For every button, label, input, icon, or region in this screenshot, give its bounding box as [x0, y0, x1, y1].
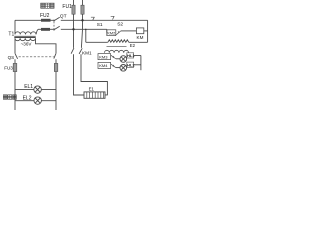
wire loop right vertical — [147, 20, 149, 42]
lamp EL1 — [34, 86, 41, 93]
svg-text:~36V: ~36V — [21, 42, 33, 47]
svg-text:KM1: KM1 — [82, 51, 92, 56]
transformer T1 core lines — [14, 36, 35, 37]
switch QS linkage (dashed) — [19, 56, 54, 58]
fuse FU2 pole2 (filled) — [41, 28, 50, 31]
lamp HL1 — [120, 56, 127, 63]
svg-text:KM3: KM3 — [99, 54, 108, 59]
svg-text:E2: E2 — [130, 43, 136, 48]
fuse FU1 right cartridge — [81, 5, 84, 14]
lamp HL2 — [120, 65, 127, 72]
transformer T1 primary left lead — [14, 20, 16, 34]
wire lamp branch left vertical — [14, 72, 16, 110]
wire EL1 row — [15, 89, 56, 91]
svg-text:KM: KM — [137, 35, 144, 40]
wire row1 right segment (QT to right loop corner) — [61, 19, 148, 21]
switch KM1 pole1 blade — [71, 48, 74, 54]
svg-text:HL2: HL2 — [127, 63, 135, 68]
node row2-L1 junction dot — [72, 28, 74, 30]
coil box KM — [136, 28, 143, 34]
switch QT linkage (dashed) — [53, 22, 55, 29]
wire loop bottom right — [129, 41, 148, 43]
label 照明灯 (CJK glyph strokes) — [3, 95, 16, 100]
wire row2 right segment — [61, 28, 107, 30]
svg-text:T1: T1 — [8, 31, 14, 37]
svg-text:KM4: KM4 — [99, 63, 108, 68]
node row1-L2 junction dot — [81, 19, 83, 21]
transformer T1 secondary right lead — [36, 38, 57, 53]
wire lamp branch right vertical — [55, 59, 57, 110]
switch QT pole2 blade — [54, 26, 60, 30]
fuse FU3 second cartridge — [54, 63, 58, 71]
transformer T1 primary winding — [15, 32, 36, 34]
switch QT pole1 hinge tick — [53, 20, 55, 22]
switch QT pole1 blade — [54, 17, 60, 21]
transformer T1 secondary winding — [15, 38, 36, 40]
wire row2 corner down to KM2 box — [106, 29, 108, 32]
wire row1 left segment (transformer primary left to QT) — [15, 19, 54, 21]
fuse FU1 left cartridge — [72, 5, 75, 14]
relay box KM3 — [98, 54, 111, 60]
svg-text:HL1: HL1 — [127, 53, 135, 58]
transformer T1 secondary left lead — [14, 38, 16, 53]
wire KM2 contact to KM box — [121, 30, 137, 32]
contact KM3 blade and tick — [111, 55, 116, 59]
wire HL right vertical — [140, 56, 142, 71]
switch S1 mark — [91, 17, 95, 20]
label box HL2 — [127, 62, 134, 67]
svg-text:EL1: EL1 — [24, 84, 33, 90]
switch S2 mark — [111, 16, 115, 19]
wire loop bottom left — [86, 41, 108, 43]
wire EL2 row — [15, 100, 56, 102]
svg-text:S1: S1 — [97, 22, 103, 28]
signal transformer coil — [105, 50, 129, 52]
switch QS pole1 blade — [15, 53, 18, 58]
svg-text:QS: QS — [8, 55, 15, 60]
transformer T1 primary right lead to row2 — [36, 29, 38, 34]
fuse FU3 cartridge — [13, 63, 17, 71]
heater E1 box with bars — [84, 92, 105, 98]
svg-text:FU2: FU2 — [40, 13, 50, 19]
wire L1 below fuse — [73, 14, 75, 48]
contact KM2 blade and tick — [116, 31, 121, 35]
wire HL2 to right vertical — [134, 64, 141, 66]
relay box KM4 — [98, 62, 111, 68]
wire L1 drop from top — [73, 0, 75, 5]
contact KM4 blade and tick — [111, 64, 116, 68]
wire KM4 contact to lamp HL2 — [116, 67, 120, 69]
label 配电室 (CJK glyph strokes) — [41, 3, 54, 8]
svg-text:FU3: FU3 — [4, 66, 13, 71]
resistor E2 zigzag — [108, 40, 129, 43]
switch QS pole2 blade — [54, 53, 56, 58]
relay box KM2 — [107, 30, 116, 36]
wire KM box to right vertical — [144, 30, 148, 32]
wire KM1 pole2 lower to E1 box right — [81, 54, 107, 95]
svg-text:KM2: KM2 — [107, 31, 115, 35]
switch KM1 pole2 blade — [79, 48, 82, 54]
svg-text:EL2: EL2 — [23, 96, 32, 102]
wire L2 drop from top — [82, 0, 84, 5]
wire KM1 pole1 lower to E1 box — [74, 54, 85, 95]
lamp EL2 — [34, 97, 41, 104]
svg-text:E1: E1 — [89, 87, 95, 92]
fuse FU2 pole1 (filled) — [41, 19, 51, 22]
svg-text:S2: S2 — [117, 21, 123, 27]
wire row2 left segment (transformer primary right to QT pole2) — [38, 28, 53, 30]
wire loop left vertical (row2 to bottom) — [85, 29, 87, 42]
label box HL1 — [127, 53, 134, 58]
svg-text:QT: QT — [60, 14, 67, 20]
wire QS pole1 to FU3 — [14, 59, 16, 63]
wire KM3 contact to lamp HL1 — [116, 58, 120, 60]
svg-text:FU1: FU1 — [62, 4, 72, 10]
core line above signal coil — [107, 46, 127, 48]
wire L2 below fuse — [81, 14, 82, 48]
wire HL1 to right vertical — [134, 55, 141, 57]
